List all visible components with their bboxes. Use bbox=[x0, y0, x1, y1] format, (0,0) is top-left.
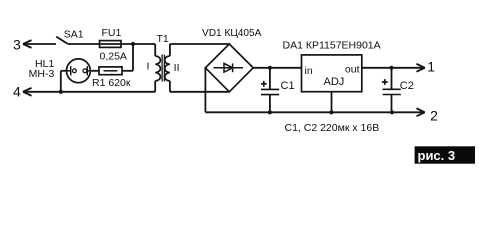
wire bbox=[154, 81, 156, 92]
winding II bbox=[165, 56, 170, 81]
node ADJ bottom junction bbox=[329, 110, 333, 114]
neon lamp HL1 bbox=[67, 59, 91, 83]
wire bbox=[133, 43, 155, 45]
svg-text:C2: C2 bbox=[400, 80, 414, 92]
wire bbox=[169, 81, 171, 92]
wire bbox=[23, 91, 155, 93]
svg-text:C1: C1 bbox=[281, 80, 295, 92]
wire bbox=[362, 67, 425, 69]
svg-text:2: 2 bbox=[430, 107, 438, 123]
transformer T1 bbox=[147, 33, 180, 92]
wire bbox=[205, 111, 424, 113]
svg-text:4: 4 bbox=[13, 84, 21, 100]
bridge rectifier VD1 bbox=[205, 44, 253, 92]
wire bbox=[170, 91, 229, 93]
capacitor C2 bbox=[382, 68, 401, 113]
svg-text:R1 620к: R1 620к bbox=[92, 77, 131, 89]
svg-text:ADJ: ADJ bbox=[324, 76, 345, 88]
wire bbox=[132, 44, 134, 71]
wire bbox=[90, 70, 99, 72]
wire bbox=[23, 43, 56, 45]
node C2 top junction bbox=[389, 66, 393, 70]
wire bbox=[68, 43, 133, 45]
svg-text:in: in bbox=[305, 65, 313, 77]
svg-text:T1: T1 bbox=[157, 33, 169, 45]
fuse FU1 bbox=[100, 41, 122, 48]
winding I bbox=[155, 56, 160, 81]
core bbox=[162, 55, 164, 82]
switch SA1 bbox=[56, 37, 67, 44]
wire bbox=[60, 71, 62, 92]
wire bbox=[169, 44, 171, 56]
caption рис. 3 bbox=[415, 146, 475, 163]
svg-text:II: II bbox=[174, 62, 180, 74]
wire bbox=[253, 67, 301, 69]
svg-text:I: I bbox=[147, 61, 150, 73]
capacitor C1 bbox=[261, 68, 279, 113]
terminal 4 bbox=[13, 84, 31, 100]
terminal 3 bbox=[13, 36, 31, 52]
svg-text:C1, C2 220мк x 16В: C1, C2 220мк x 16В bbox=[285, 122, 380, 134]
wire bbox=[331, 92, 333, 113]
wire bbox=[204, 68, 206, 113]
svg-text:1: 1 bbox=[427, 59, 435, 75]
svg-text:МН-3: МН-3 bbox=[29, 68, 55, 80]
node C2 bottom junction bbox=[390, 110, 394, 114]
voltage regulator DA1 bbox=[302, 55, 362, 92]
node C1 bottom junction bbox=[268, 110, 272, 114]
wire bbox=[154, 44, 156, 56]
wire bbox=[170, 43, 229, 45]
resistor R1 bbox=[99, 67, 122, 75]
wire bbox=[61, 70, 67, 72]
node lamp-bottom junction bbox=[59, 90, 63, 94]
node C1 top junction bbox=[268, 66, 272, 70]
svg-text:DA1 КР1157ЕН901А: DA1 КР1157ЕН901А bbox=[283, 39, 381, 51]
svg-text:out: out bbox=[345, 64, 360, 76]
svg-text:рис. 3: рис. 3 bbox=[418, 148, 456, 163]
terminal 2 bbox=[417, 107, 439, 123]
svg-text:3: 3 bbox=[13, 36, 21, 52]
wire bbox=[122, 70, 133, 72]
terminal 1 bbox=[417, 59, 436, 75]
svg-text:0,25A: 0,25A bbox=[100, 50, 127, 62]
svg-text:FU1: FU1 bbox=[102, 27, 122, 39]
node fuse-lamp junction bbox=[131, 42, 135, 46]
svg-text:VD1 КЦ405А: VD1 КЦ405А bbox=[202, 28, 262, 39]
svg-text:SA1: SA1 bbox=[64, 29, 84, 41]
